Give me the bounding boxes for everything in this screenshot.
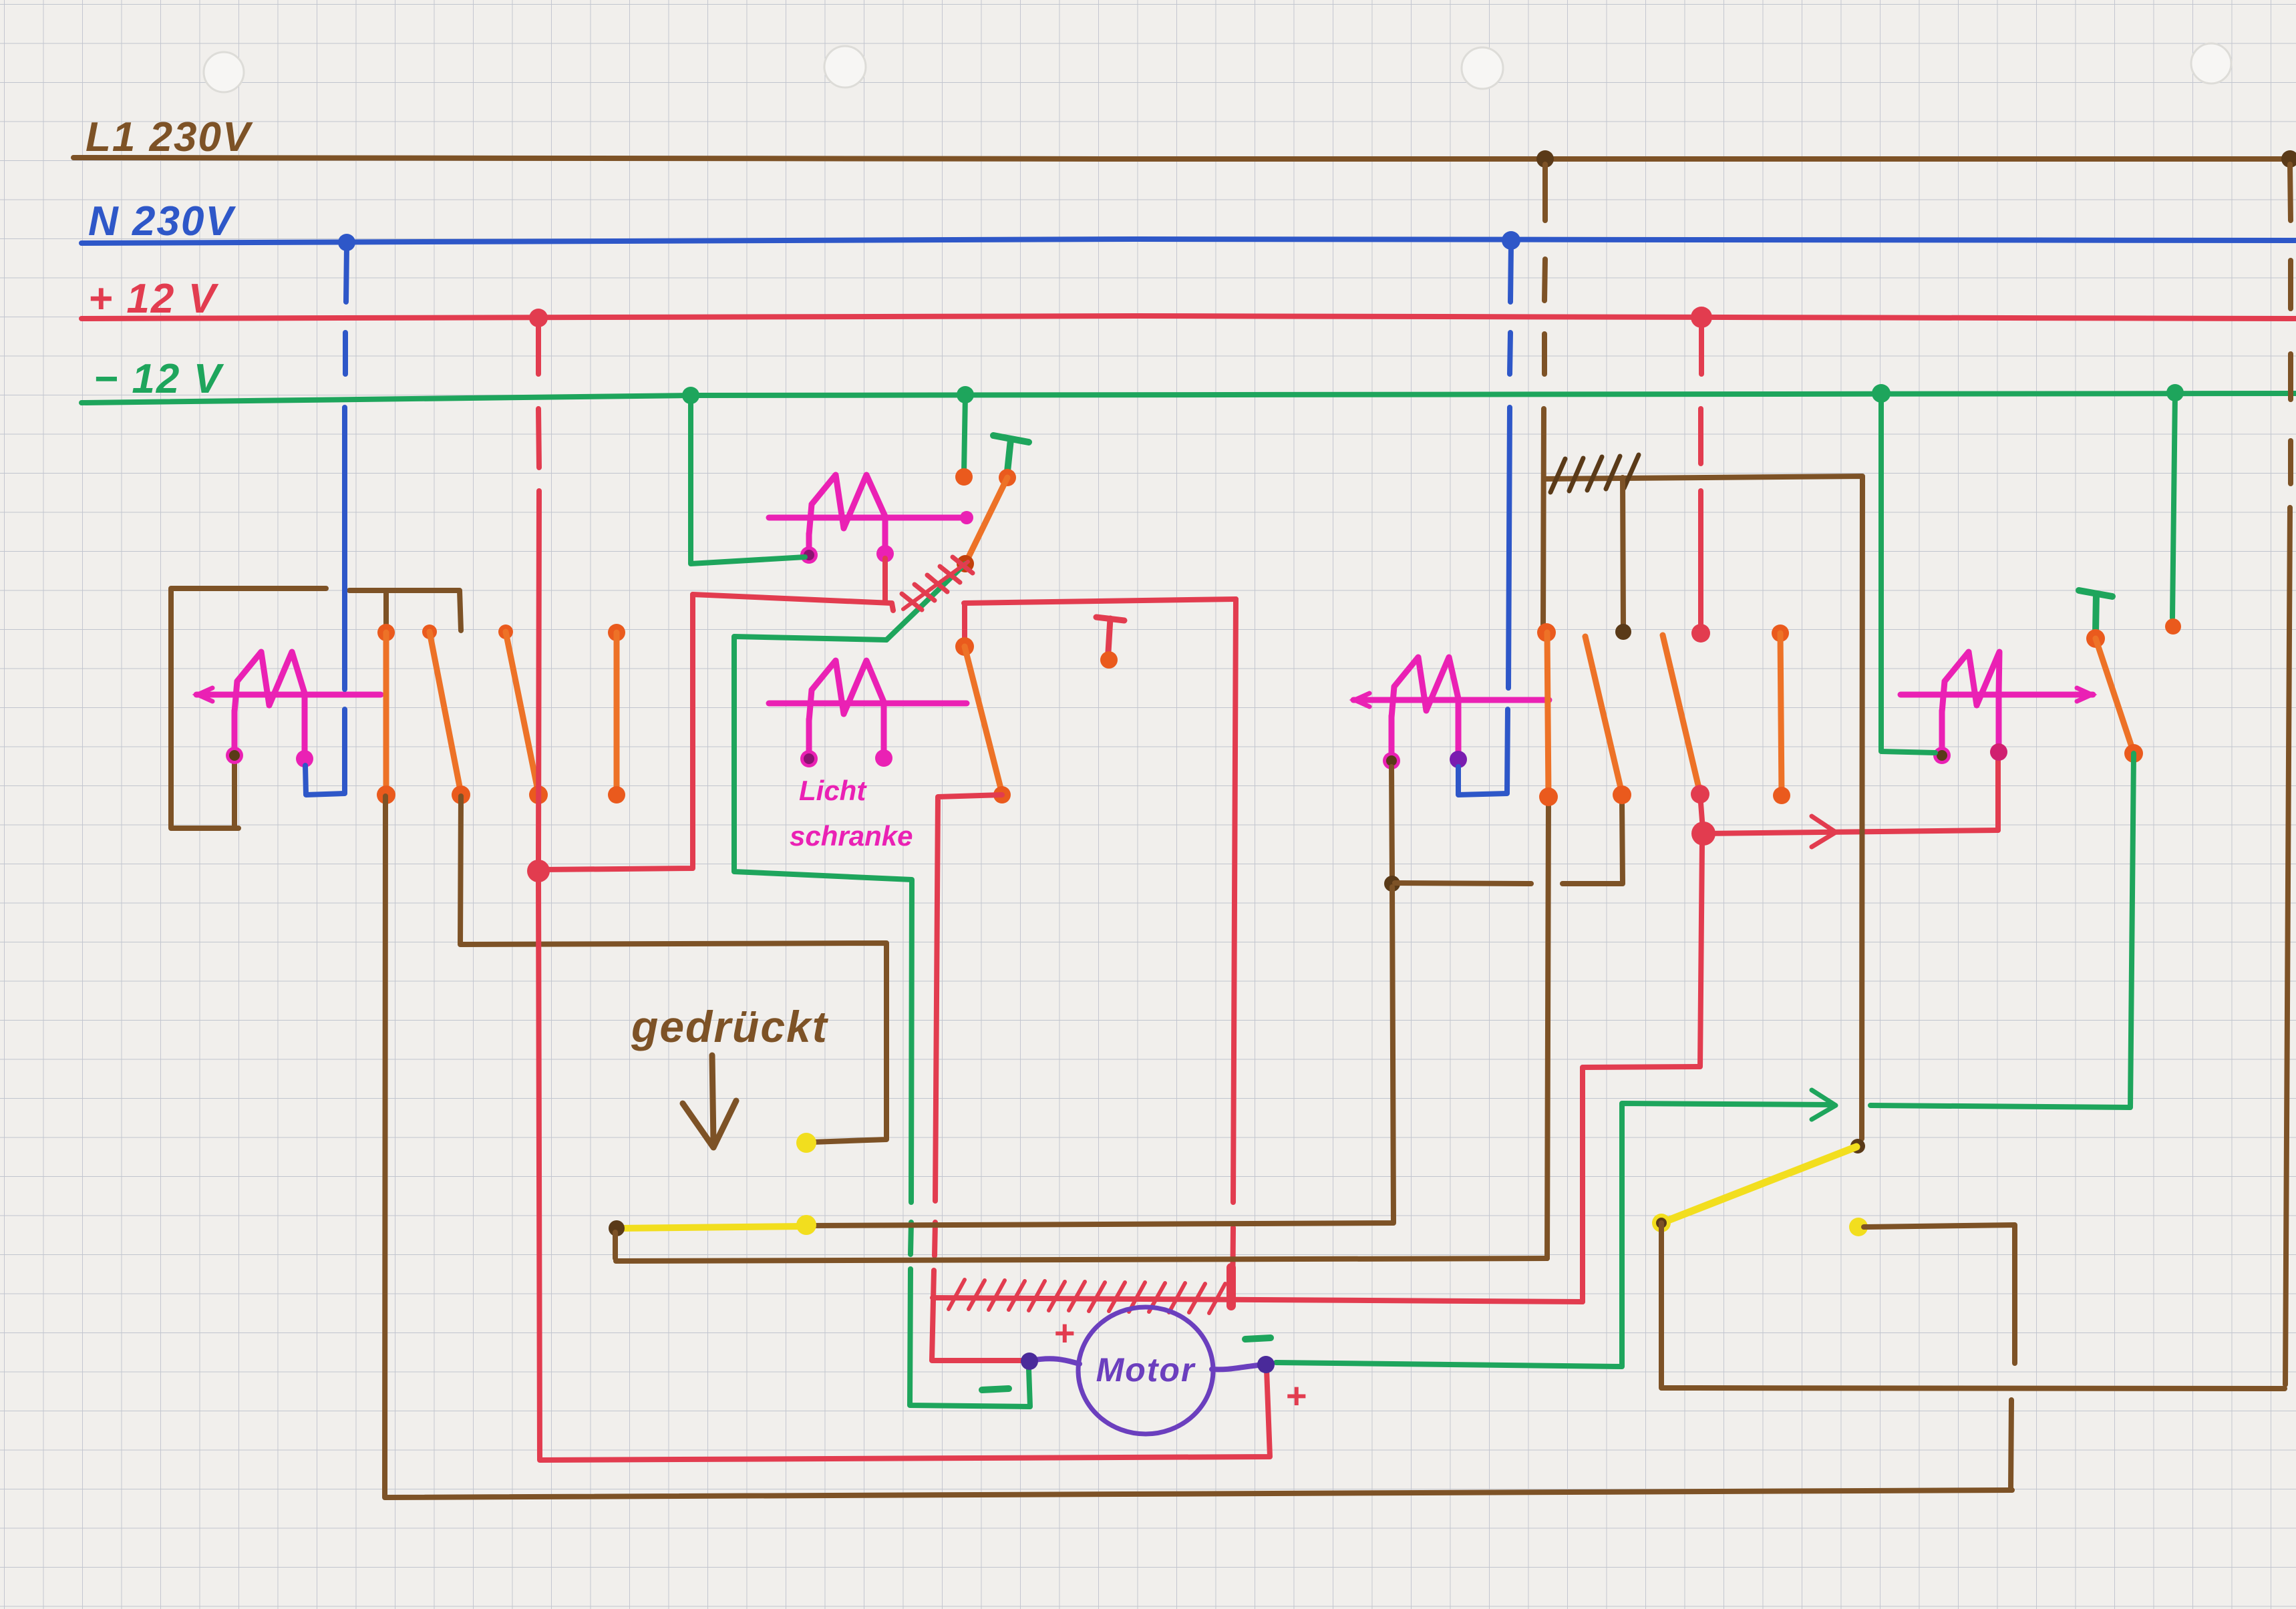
wire purple motor left lead [1031,1359,1080,1364]
node L1-rail / brown drop x=2313 [1536,150,1554,168]
contact C4 (orange, closed) with terminal dots [1772,624,1789,642]
wire +12V rail (red) [81,316,2296,319]
wire blue drop from N rail (dashed across rails) to relay K2 right pin [305,246,347,795]
node C2 bottom terminal dot [1613,785,1631,804]
wire green from -12V rail x=2816 to relay K4 left pin [1881,393,1935,753]
contact S4 (orange, closed) with terminal dots [608,624,625,641]
svg-text:L1 230V: L1 230V [86,114,253,160]
node switch pivot (1445,844) [957,555,974,572]
wire brown stub from box bottom to relay K2 left pin [232,761,237,828]
wire yellow link to left brown contact [619,1226,804,1228]
node red junction (806,1304) [527,860,550,882]
wire brown cross-link y=1323 left part [1395,883,1531,884]
pushbutton actuator T (green) upper [993,435,1029,472]
wire brown drop from L1 rail x=2313 (dashed over rails) [1543,164,1545,629]
wire brown riser x=2316 from contact C1 bottom [1547,801,1548,1258]
wire green from -12V rail to relay K1 left pin [691,395,805,564]
relay coil K2 (magenta M symbol) [196,652,381,767]
node contact dot (1443,713) [955,468,973,486]
hatch ticks on brown bar (mechanical link) [1550,455,1639,492]
paper hole punch 1 [204,52,244,92]
node yellow dot (1207,1834) [796,1215,816,1235]
wire brown far-right riser x=3425 (dashed near top) [2285,164,2291,1385]
node C3 bottom terminal dot [1691,785,1709,803]
node blade bottom terminal (1500,1190) [993,786,1011,803]
wire L1 230V rail (brown) [73,158,2291,159]
wire brown from S2 bottom to gedrueckt box [460,796,886,1142]
wire green stub from -12V rail x=3256 to spare contact [2172,393,2175,618]
contact S1 (orange, closed) with terminal dots [377,624,395,641]
wire brown from K3 left pin continued down to yellow switch line [814,887,1393,1226]
node S2 bottom terminal [452,785,470,804]
paper hole punch 4 [2191,43,2231,83]
node C3 top terminal dot (red) [1691,624,1710,643]
switch blade (orange) from pushbutton dot to pivot [965,478,1007,564]
svg-text:Motor: Motor [1096,1351,1196,1389]
node C1 top terminal dot [1537,623,1556,642]
node +12V-rail / red drop x=806 [529,309,548,327]
wire red from C3 bottom to big junction [1700,794,1703,830]
node C1 bottom terminal dot [1539,787,1558,806]
wire red vertical feeder x=1850 down to motor hatch line [1233,599,1236,1306]
svg-text:+: + [1054,1313,1077,1353]
hatch ticks on red mechanical line [949,1280,1225,1313]
node motor right terminal dot [1257,1356,1275,1373]
svg-text:+: + [1286,1376,1309,1416]
wire red hatched (mechanical) line above motor [933,1298,1583,1302]
contact C1 (orange, closed) [1547,633,1548,796]
node brown contact dot left of yellow link [609,1220,625,1236]
wire brown drop from bar to blade C2 top [1623,478,1623,628]
arrowhead on green cross wire [1812,1090,1836,1119]
wire red Z-path from hatch line up to big junction (2550,1248) [1583,842,1702,1302]
wire green from right blade down, across (arrow) and to motor minus right [1276,753,2134,1367]
wire N 230V rail (blue) [81,239,2296,243]
switch blade S2 (orange diagonal) [430,632,461,793]
node spare contact dot (3253,938) [2165,618,2181,635]
node +12V-rail / red drop x=2547 [1691,307,1712,328]
node yellow blade bottom dot [1652,1214,1671,1232]
node yellow contact dot at gedrueckt box end [796,1133,816,1153]
wire brown feed top-left (L-shaped box around relay K2) [171,588,326,828]
wire red riser to relay K4 right pin [1995,756,2001,830]
node brown junction (2084,1323) [1384,876,1400,892]
wire red long feeder right part to x=1850 [964,599,1236,603]
wire red from junction right to relay K4 right pin (with arrowhead) [1703,830,1998,834]
mechanical link (green diagonal) from pivot [886,564,965,640]
wire brown hatched bar y=715 with corner down at x=2788 [1545,476,1862,1139]
switch blade C3 (orange diagonal, open) [1663,635,1700,793]
switch blade C2 (orange diagonal, open) [1585,637,1622,793]
node N-rail / blue drop x=519 [338,234,355,251]
wire red junction to right and up to long red feeder [542,594,693,870]
relay coil K4 (magenta M symbol) [1901,652,2093,764]
wire red stub from K1 right pin down to red feeder [882,558,888,601]
wire red continuation of +12 drop to bottom and motor right terminal [538,875,1270,1460]
wire brown drop to contact S1 [383,590,389,631]
switch blade right (orange diagonal) [2096,639,2134,753]
label - at motor right [1245,1338,1271,1339]
node -12V-rail / green drop x=1034 [682,387,699,404]
node L1-rail right end x=3428 [2281,150,2296,168]
wire red +12V drop x=806 (dashed) down to junction [538,323,539,864]
pushbutton actuator T (green) right [2079,590,2112,633]
wire brown from K3 left pin down with junction at y=1323 [1391,767,1392,880]
paper hole punch 3 [1462,47,1503,89]
switch blade (orange) from pivot to red return [965,647,1002,793]
node S3 bottom terminal on red drop [529,785,548,804]
relay coil K-Lichtschranke (magenta M symbol) [769,661,967,767]
node big red junction (2550,1248) [1691,822,1715,846]
node magenta line right end dot [960,511,973,524]
svg-text:Licht: Licht [799,775,867,806]
wire brown from S1 bottom down-right to far bottom rail [385,796,2012,1497]
switch blade S3 (orange diagonal) [506,632,538,793]
wire brown tick below left contact [613,1232,618,1258]
node N-rail / blue drop x=2262 [1502,231,1520,250]
relay coil K1 (magenta M symbol) [769,475,967,564]
hatch ticks (red) on mechanical link [903,562,968,609]
wire red from blade bottom to motor + (left terminal) [932,795,1021,1361]
wire brown drop right x=2787 end at yellow blade top [1850,1139,1865,1153]
svg-text:+ 12 V: + 12 V [88,276,219,322]
node pivot dot (1444,968) [955,637,974,656]
wire red long feeder y=890-905 left part with hook [693,594,893,610]
label - at motor left [982,1389,1009,1390]
paper hole punch 2 [824,46,866,87]
switch blade (yellow diagonal) [1661,1147,1856,1223]
switch blade S2 (orange, open) top terminal [422,624,437,639]
wire brown from yellow contact right and down to bottom rail [1864,1225,2015,1490]
svg-text:gedrückt: gedrückt [631,1002,829,1051]
wire brown long return y=1887 to right block [616,1258,1547,1261]
node yellow contact dot (2782,1837) [1849,1218,1868,1236]
wire red drop to switch pivot x=1444 [962,603,967,643]
node red pushbutton dot (1660,986) [1100,651,1118,669]
wire red drop +12V x=2547 (dashed) to blade C3 top [1701,322,1701,628]
wire blue drop from N rail to relay K3 right pin [1458,244,1511,795]
pushbutton actuator T (red) middle [1096,617,1124,652]
wire brown cross-link y=1323 right part up to S-block [1563,801,1623,884]
node green pushbutton dot (3137,955) [2086,629,2105,648]
node motor left terminal dot [1021,1353,1038,1370]
switch blade S3 (orange, open) top terminal [498,624,513,639]
wire green drop from -12V rail to switch contact x=1445 [964,395,965,473]
wire -12V rail (green) [81,393,2296,403]
wire green from mech link to motor minus (left loop) [734,637,1030,1407]
node C2 top terminal dot [1615,624,1631,640]
svg-text:− 12 V: − 12 V [94,356,224,402]
relay coil K3 (magenta M symbol) [1353,657,1549,769]
node -12V-rail / green drop x=1445 [957,386,974,403]
node -12V-rail / green drop x=2816 [1872,384,1891,403]
wire brown top segment to first contacts [349,590,461,631]
wire brown from yellow blade bottom down and right to far right riser [1661,1223,2285,1389]
svg-text:N 230V: N 230V [88,198,236,244]
node -12V-rail / green drop x=3256 [2166,384,2184,401]
arrow below gedrueckt label [683,1055,736,1147]
wire purple motor right lead [1212,1365,1265,1369]
node blade bottom dot (3194,1127) [2124,744,2143,763]
node pushbutton contact dot (1508,714) [999,469,1016,486]
svg-text:schranke: schranke [790,820,913,852]
motor M1 (purple circle) [1078,1307,1213,1434]
